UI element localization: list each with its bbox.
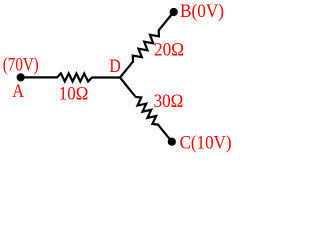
resistor R3 30ohm with wire D to C [120,78,172,142]
svg-text:D: D [109,57,120,77]
node A terminal dot [17,73,25,81]
svg-text:(70V): (70V) [3,56,39,76]
svg-text:30Ω: 30Ω [154,92,184,112]
resistor R2 20ohm with wire D to B [120,12,174,78]
node B terminal dot [170,8,178,16]
svg-text:C(10V): C(10V) [180,133,232,153]
svg-text:A: A [12,82,24,102]
svg-text:10Ω: 10Ω [59,85,89,105]
node C terminal dot [168,138,176,146]
svg-text:20Ω: 20Ω [154,40,184,60]
svg-text:B(0V): B(0V) [180,2,224,22]
resistor R1 10ohm with wire A to D [21,73,120,81]
